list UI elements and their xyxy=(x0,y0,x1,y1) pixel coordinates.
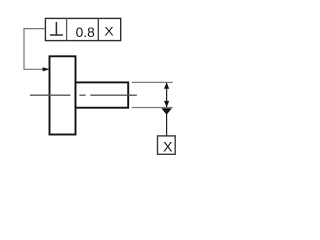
shaft (small diameter) outline xyxy=(76,82,129,107)
extension line bottom xyxy=(132,107,173,109)
frame divider 1 xyxy=(66,18,68,40)
dimension line xyxy=(166,83,168,107)
centerline xyxy=(30,94,137,96)
datum triangle xyxy=(161,108,171,115)
frame divider 2 xyxy=(97,18,99,40)
dimension arrow down xyxy=(164,101,169,107)
dimension arrow up xyxy=(164,82,169,88)
svg-text:X: X xyxy=(163,139,173,155)
svg-text:0.8: 0.8 xyxy=(76,25,96,40)
datum leader xyxy=(166,114,168,136)
svg-text:X: X xyxy=(104,25,114,39)
flange (large diameter) outline xyxy=(50,56,76,134)
extension line top xyxy=(132,81,173,83)
feature control frame outline xyxy=(45,18,120,40)
datum box xyxy=(158,136,176,154)
leader line from frame to flange face xyxy=(24,29,45,70)
perpendicularity symbol xyxy=(50,22,63,35)
leader arrowhead xyxy=(43,67,50,71)
